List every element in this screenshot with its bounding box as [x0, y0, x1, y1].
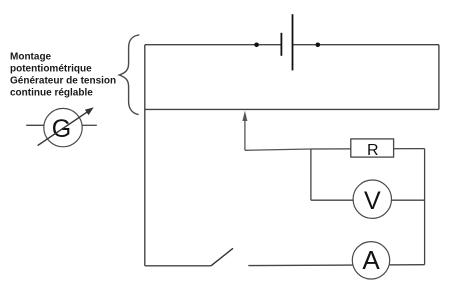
switch blade: [211, 248, 233, 265]
svg-text:V: V: [364, 187, 381, 215]
wiper arrow: [242, 111, 310, 151]
wire right edge of potentiometer box: [438, 45, 440, 110]
label: Montage potentiometrique text: [10, 52, 116, 99]
wire bottom right: [248, 264, 424, 267]
wire top left (battery left): [145, 44, 282, 46]
wire left branch vertical (V branch): [310, 149, 312, 200]
wire G left lead: [26, 124, 44, 126]
svg-text:A: A: [362, 245, 380, 275]
wire wiper junction to R and right branch: [311, 148, 425, 150]
svg-text:R: R: [367, 142, 379, 159]
node dot left of battery: [254, 43, 259, 48]
wire G right lead: [82, 124, 97, 126]
brace: [119, 35, 139, 115]
wire bottom left: [145, 265, 211, 267]
node dot right of battery: [316, 43, 321, 48]
potentiometer track (bottom edge): [145, 108, 439, 110]
voltmeter V circle: [353, 180, 391, 218]
svg-text:Générateur de tension: Générateur de tension: [10, 76, 116, 87]
svg-text:continue réglable: continue réglable: [10, 88, 93, 99]
resistor R box: [351, 139, 394, 157]
G adjustment arrow: [38, 107, 94, 145]
wire top right (battery right): [293, 44, 439, 46]
generator G circle: [44, 108, 82, 146]
wire right branch vertical: [424, 149, 426, 265]
svg-text:potentiométrique: potentiométrique: [10, 64, 92, 75]
wire left edge: [144, 45, 146, 266]
ammeter A circle: [352, 242, 389, 279]
battery short plate (negative): [280, 33, 282, 56]
wire V horizontal: [311, 199, 425, 201]
svg-text:Montage: Montage: [10, 52, 52, 63]
battery long plate (positive): [292, 14, 294, 70]
